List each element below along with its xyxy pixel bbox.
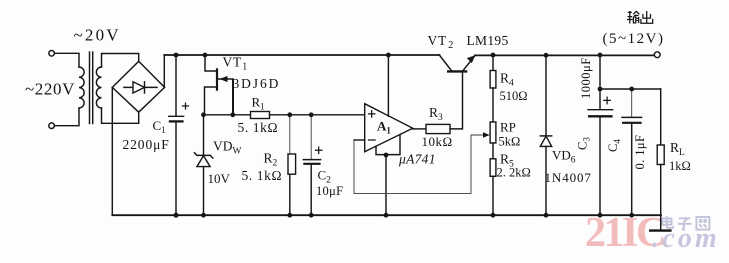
svg-text:2200μF: 2200μF [123, 137, 170, 152]
svg-text:(5~12V): (5~12V) [603, 31, 665, 47]
svg-text:510Ω: 510Ω [500, 89, 528, 103]
svg-text:5kΩ: 5kΩ [499, 135, 521, 149]
svg-text:LM195: LM195 [467, 33, 509, 48]
svg-text:5. 1kΩ: 5. 1kΩ [238, 120, 279, 135]
svg-text:2. 2kΩ: 2. 2kΩ [497, 166, 531, 180]
svg-text:RP: RP [500, 120, 516, 135]
svg-text:1kΩ: 1kΩ [669, 159, 691, 173]
svg-text:~220V: ~220V [25, 80, 75, 99]
svg-text:1000μF: 1000μF [579, 57, 593, 99]
svg-text:5. 1kΩ: 5. 1kΩ [242, 168, 283, 183]
svg-text:3DJ6D: 3DJ6D [233, 76, 281, 91]
svg-text:μA741: μA741 [398, 152, 436, 167]
svg-text:~20V: ~20V [74, 26, 121, 45]
svg-text:1N4007: 1N4007 [545, 170, 592, 185]
svg-text:10μF: 10μF [316, 184, 343, 198]
svg-text:10V: 10V [208, 171, 231, 186]
svg-text:10kΩ: 10kΩ [422, 134, 453, 149]
svg-text:0. 1μF: 0. 1μF [633, 135, 647, 170]
